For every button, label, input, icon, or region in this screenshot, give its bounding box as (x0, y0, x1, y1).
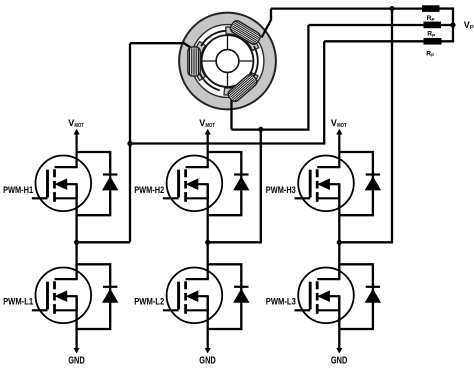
svg-text:PWM-H3: PWM-H3 (266, 185, 296, 195)
svg-text:PWM-L1: PWM-L1 (3, 297, 33, 307)
svg-text:V: V (199, 118, 205, 128)
svg-text:GND: GND (199, 355, 216, 366)
svg-text:MOT: MOT (74, 123, 84, 129)
svg-text:V: V (464, 20, 470, 30)
svg-text:GND: GND (331, 355, 348, 366)
svg-text:P: P (431, 53, 434, 58)
svg-text:GND: GND (68, 355, 85, 366)
svg-text:PWM-L2: PWM-L2 (134, 297, 164, 307)
svg-text:PWM-H2: PWM-H2 (134, 185, 164, 195)
svg-text:P: P (432, 17, 435, 22)
svg-text:P: P (432, 33, 435, 38)
svg-text:MOT: MOT (337, 123, 347, 129)
svg-text:P: P (470, 25, 474, 31)
svg-text:MOT: MOT (206, 123, 216, 129)
svg-text:V: V (331, 118, 337, 128)
svg-text:PWM-H1: PWM-H1 (3, 185, 33, 195)
svg-text:PWM-L3: PWM-L3 (266, 297, 296, 307)
svg-text:V: V (68, 118, 74, 128)
